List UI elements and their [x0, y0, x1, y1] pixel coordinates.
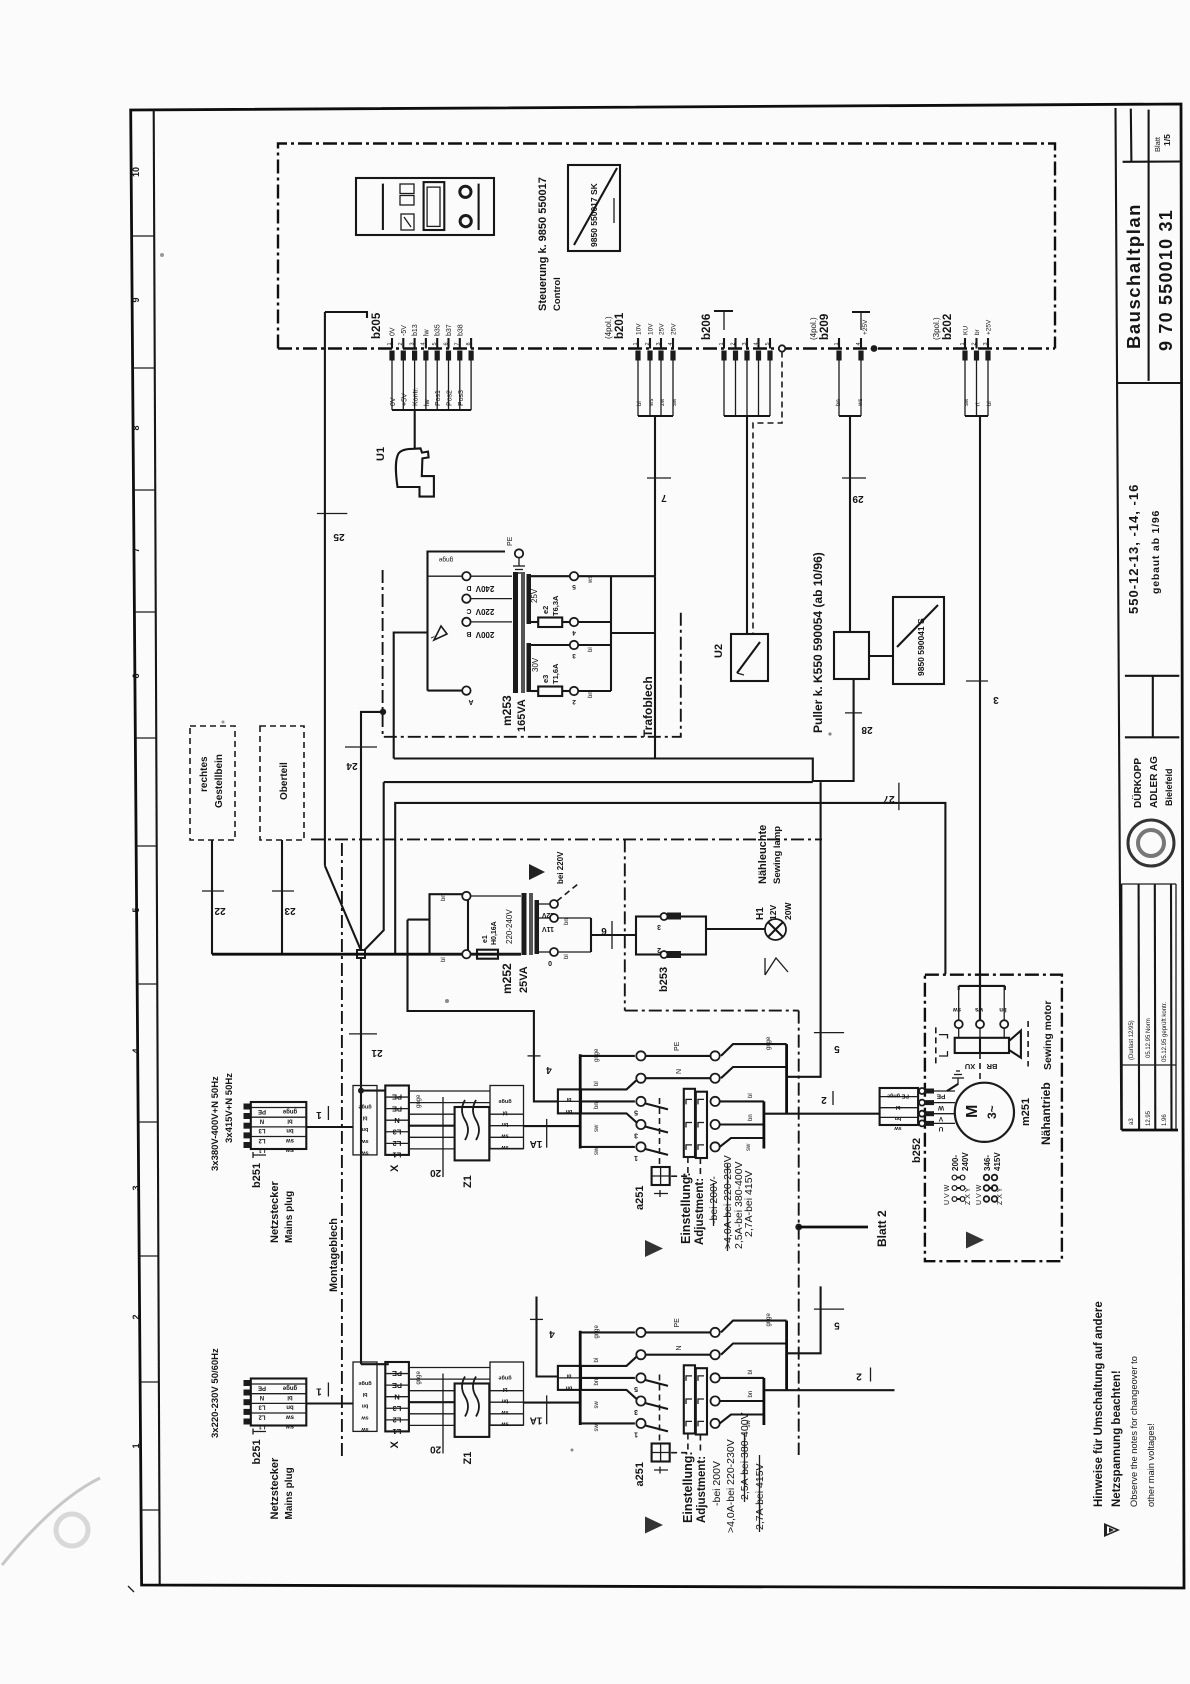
pin 2 wire to bundle: [976, 361, 978, 417]
border frame outer: [131, 104, 1184, 1588]
wire 21 tick: [349, 1033, 377, 1035]
overload linkage dashed lower: [670, 1434, 688, 1453]
b252 plug pins: [919, 1088, 925, 1094]
svg-text:b251: b251: [251, 1439, 263, 1464]
svg-text:b201: b201: [614, 312, 626, 339]
light barrier U2 box: [731, 634, 768, 681]
pin 3 vertical: [414, 338, 416, 349]
svg-text:gnge: gnge: [282, 1108, 297, 1114]
svg-text:L3: L3: [258, 1127, 266, 1133]
svg-text:Einstellung:: Einstellung:: [681, 1451, 695, 1523]
pin 3 vertical: [987, 338, 989, 349]
svg-text:b205: b205: [371, 312, 383, 339]
pin 5 wire to bundle: [436, 361, 438, 411]
dashed wire from bus to U2: [779, 345, 785, 351]
svg-text:3: 3: [983, 342, 989, 345]
pin 3 vertical: [660, 338, 662, 349]
m253 warning triangle: [434, 626, 447, 640]
mains plug b251 box lower: [251, 1379, 306, 1426]
brake feed wires: [958, 986, 960, 1020]
svg-text:PE: PE: [674, 1041, 681, 1051]
svg-text:L3: L3: [393, 1404, 402, 1413]
pin 3 wire to bundle: [414, 361, 416, 411]
svg-text:Netzspannung beachten!: Netzspannung beachten!: [1111, 1370, 1123, 1507]
filter output rows upper: [489, 1113, 523, 1115]
pin 3 connector symbol: [658, 351, 663, 361]
wire 1 tick lower: [327, 1383, 329, 1397]
pin 3 connector symbol: [744, 351, 749, 361]
svg-text:bn: bn: [501, 1398, 508, 1404]
pin 1 connector symbol: [721, 351, 726, 361]
svg-text:m253: m253: [500, 695, 514, 726]
pin 1 wire to bundle: [964, 361, 966, 417]
switch output rows lower: [721, 1321, 787, 1333]
company cell top line: [1125, 675, 1179, 677]
pin 1 connector symbol: [836, 351, 841, 361]
pin 4 wire to bundle: [425, 361, 427, 411]
svg-text:D: D: [466, 584, 471, 591]
contact row PE straight lower: [646, 1331, 711, 1333]
svg-text:PE: PE: [674, 1318, 681, 1328]
svg-text:240V: 240V: [475, 584, 494, 593]
svg-text:5: 5: [432, 342, 438, 345]
svg-text:240V: 240V: [961, 1152, 970, 1171]
svg-text:b206: b206: [701, 314, 713, 340]
m252 secondary terminal 11V: [539, 917, 550, 919]
title block Blatt cell divider: [1130, 109, 1133, 162]
pin 8 vertical: [470, 338, 472, 349]
svg-text:b35: b35: [435, 324, 442, 336]
wire 28 tick: [845, 712, 862, 714]
overload relay block left upper: [684, 1089, 695, 1157]
svg-text:0V: 0V: [390, 327, 397, 336]
puller relay box: [834, 632, 869, 679]
svg-text:2: 2: [821, 1094, 827, 1105]
svg-text:L3: L3: [258, 1404, 266, 1410]
enclosure dash-dot left vertical: [624, 839, 626, 1010]
svg-text:7: 7: [661, 492, 667, 503]
wire 6 from m252 to b253: [591, 934, 636, 936]
title table verticals: [1120, 884, 1123, 1130]
svg-text:bl: bl: [287, 1118, 293, 1124]
svg-text:346-: 346-: [983, 1155, 992, 1171]
svg-text:e3: e3: [541, 675, 550, 683]
adjuster a251 box lower: [652, 1444, 670, 1462]
transformer m252 primary box: [430, 894, 469, 954]
pin 2 vertical: [402, 338, 404, 349]
svg-text:7: 7: [131, 547, 141, 552]
border frame inner left scale line: [154, 110, 160, 1585]
svg-text:5: 5: [634, 1385, 638, 1392]
svg-text:W: W: [937, 1104, 944, 1111]
Trafoblech shield dash-dot box: [383, 570, 681, 737]
company logo: [1128, 820, 1174, 866]
svg-text:165VA: 165VA: [516, 699, 528, 732]
svg-text:PE: PE: [392, 1369, 402, 1378]
wire 24 from shield to node: [361, 712, 383, 865]
wire 1A tick lower: [546, 1395, 548, 1424]
svg-text:2: 2: [131, 1314, 141, 1319]
wire 4 upper tick: [528, 1055, 541, 1057]
svg-text:L2: L2: [393, 1139, 402, 1148]
svg-text:b37: b37: [446, 324, 453, 336]
svg-text:5: 5: [834, 1043, 840, 1054]
program box inner mark: [613, 198, 615, 223]
svg-text:bn: bn: [836, 399, 842, 406]
svg-text:bn: bn: [594, 1379, 600, 1386]
svg-text:9850 590041 S: 9850 590041 S: [916, 618, 926, 676]
pin 1 wire to bundle: [838, 361, 840, 417]
pin 2 vertical: [975, 338, 977, 349]
svg-text:Einstellung:: Einstellung:: [679, 1172, 693, 1244]
pin 2 connector symbol: [401, 351, 406, 361]
long wire m253 to puller supply: [394, 680, 854, 782]
fuse e3 T1.6A: [531, 690, 538, 692]
main switch left contacts lower: [636, 1328, 645, 1337]
pin 8 wire to bundle: [470, 361, 472, 411]
wires X to filter lower: [409, 1367, 490, 1369]
overload relay block right upper: [696, 1092, 707, 1158]
m253 primary terminal C 220V: [462, 594, 470, 602]
company cell divider: [1152, 676, 1154, 738]
title block left boundary: [1116, 108, 1122, 1130]
pin 1 wire to bundle: [723, 361, 725, 417]
title block line under Blatt cell: [1123, 160, 1181, 162]
wire from b206 to light barrier U2: [746, 416, 748, 634]
svg-text:Mains plug: Mains plug: [284, 1191, 295, 1243]
svg-text:sw: sw: [501, 1421, 509, 1427]
svg-text:PE: PE: [258, 1108, 266, 1114]
bei 220V dashed tap: [557, 884, 578, 901]
svg-text:Sewing motor: Sewing motor: [1042, 1001, 1054, 1070]
svg-text:4: 4: [753, 342, 759, 345]
svg-text:B: B: [466, 630, 471, 637]
svg-text:2: 2: [730, 342, 736, 345]
svg-text:-5V: -5V: [401, 325, 408, 336]
overload elements upper: [686, 1099, 692, 1104]
svg-text:4: 4: [546, 1064, 552, 1075]
svg-text:bn: bn: [361, 1126, 368, 1132]
machine top enclosure dash-dot top edge: [311, 838, 822, 840]
motor earth symbol: [947, 1084, 958, 1091]
cable 2 wire lower: [764, 1389, 895, 1391]
speed control unit U1 pedal shape: [396, 448, 434, 496]
pin 1 wire to bundle: [637, 361, 639, 417]
b251 earth mark lower: [253, 1429, 266, 1435]
bei 220V pointer triangle: [529, 864, 545, 880]
svg-text:4: 4: [572, 629, 576, 636]
svg-text:KU: KU: [963, 326, 970, 335]
svg-text:rechtes: rechtes: [199, 756, 210, 792]
warning triangle lower: [645, 1517, 663, 1534]
box rechtes Gestellbein dashed: [190, 726, 235, 840]
svg-text:M: M: [964, 1105, 981, 1118]
svg-text:Puller k. K550 590054 (ab: Puller k. K550 590054 (ab 10/96): [811, 552, 825, 733]
svg-text:28: 28: [861, 724, 873, 735]
m253 primary terminal D 240V: [462, 572, 470, 580]
svg-text:550-12-13, -14, -16: 550-12-13, -14, -16: [1126, 484, 1141, 614]
svg-text:bn: bn: [361, 1403, 368, 1409]
fuse e2 T6.3A: [531, 621, 538, 623]
box Oberteil dashed: [260, 726, 304, 840]
svg-text:b251: b251: [251, 1163, 263, 1188]
svg-text:gnge: gnge: [498, 1375, 511, 1381]
pin 3 vertical: [746, 338, 748, 349]
svg-text:sw: sw: [361, 1414, 369, 1420]
cable label box right lower: [490, 1362, 524, 1425]
pin 4 wire to bundle: [860, 361, 862, 417]
svg-text:Oberteil: Oberteil: [279, 762, 290, 800]
program box diagonal: [574, 168, 617, 245]
svg-text:-bei 200V: -bei 200V: [711, 1461, 723, 1506]
filter output rows lower: [489, 1390, 523, 1392]
b251 pin square row5 lower: [244, 1419, 251, 1425]
svg-text:X: X: [389, 1164, 401, 1172]
svg-text:sw: sw: [594, 1124, 600, 1132]
svg-text:L1: L1: [258, 1423, 266, 1429]
svg-text:sw: sw: [746, 1143, 752, 1151]
svg-text:2: 2: [971, 342, 977, 345]
wire 21 branch to terminal X lower: [361, 1363, 389, 1365]
svg-text:20: 20: [430, 1444, 442, 1455]
cable 5 stub lower: [787, 1286, 821, 1353]
node trunk horizontal: [212, 953, 521, 956]
sewing motor enclosure dash-dot box: [925, 975, 1062, 1261]
svg-text:X: X: [389, 1441, 401, 1449]
collector vertical phases upper: [763, 1101, 766, 1148]
control unit enclosure dash-dot box: [278, 144, 1055, 349]
wire stub to Blatt 2: [799, 1226, 868, 1229]
svg-text:PE: PE: [392, 1104, 402, 1113]
mounting plate dash-dot line Montageblech: [341, 843, 343, 1458]
pin 2 vertical: [649, 338, 651, 349]
svg-text:rt: rt: [976, 402, 982, 406]
svg-text:H0,16A: H0,16A: [491, 921, 498, 945]
pin 1 connector symbol: [389, 351, 394, 361]
svg-text:b252: b252: [911, 1138, 923, 1163]
wire 1 plug to terminal upper: [306, 1126, 353, 1128]
svg-text:sw: sw: [594, 1424, 600, 1432]
switch linkage dashed upper: [659, 1098, 661, 1167]
b251 pin square row3 lower: [244, 1399, 251, 1405]
svg-text:V: V: [938, 1115, 943, 1122]
svg-text:bl: bl: [748, 1093, 754, 1098]
svg-text:bl: bl: [362, 1115, 367, 1121]
switch linkage dashed lower: [659, 1375, 661, 1444]
svg-text:22: 22: [214, 905, 226, 916]
svg-text:+25V: +25V: [862, 319, 869, 335]
svg-text:ws: ws: [974, 1006, 984, 1012]
svg-text:bl: bl: [637, 401, 643, 406]
svg-text:L1: L1: [393, 1151, 402, 1160]
enclosure dash-dot vertical to Blatt2: [798, 1011, 800, 1455]
svg-text:6: 6: [601, 925, 607, 936]
svg-text:br: br: [974, 328, 981, 335]
pin 5 connector symbol: [435, 351, 440, 361]
svg-text:H1: H1: [755, 907, 766, 920]
svg-text:Bauschaltplan: Bauschaltplan: [1123, 203, 1144, 349]
collector vertical phases lower: [763, 1378, 766, 1425]
long wire node to puller ground: [384, 781, 813, 783]
svg-text:30V: 30V: [531, 657, 540, 672]
svg-text:10V: 10V: [648, 323, 655, 335]
svg-text:bn: bn: [564, 918, 570, 925]
cable 5 stub upper: [787, 782, 821, 1077]
svg-text:Blatt: Blatt: [1153, 136, 1162, 152]
svg-text:1/5: 1/5: [1162, 134, 1172, 146]
svg-text:Trafoblech: Trafoblech: [641, 676, 655, 737]
svg-text:1: 1: [633, 342, 639, 345]
pin 1 vertical: [838, 338, 840, 349]
m253 primary terminal B 200V: [462, 618, 470, 626]
svg-text:PE: PE: [507, 536, 514, 546]
junction dot wire24 to shield: [380, 709, 386, 715]
wire 7 tick: [647, 477, 671, 479]
wire 6 tick: [611, 921, 613, 949]
warning triangle at note: [1104, 1523, 1120, 1537]
contact row N straight upper: [646, 1077, 711, 1079]
pin 2 connector symbol: [647, 351, 652, 361]
svg-text:1.96: 1.96: [1162, 1114, 1168, 1126]
svg-text:PE: PE: [392, 1093, 402, 1102]
svg-text:gnge: gnge: [358, 1104, 371, 1110]
svg-text:(Durlast 12/95): (Durlast 12/95): [1129, 1020, 1135, 1060]
wire 27 from node to motor: [395, 803, 945, 974]
svg-text:4: 4: [668, 342, 674, 345]
m252 secondary terminal 0: [539, 951, 550, 953]
connector b253 box: [636, 917, 706, 955]
adjuster a251 box upper: [652, 1167, 670, 1185]
svg-text:Pos1: Pos1: [435, 390, 442, 406]
switch feed vertical lower: [579, 1331, 582, 1425]
m253 primary terminal A: [462, 686, 470, 694]
title table inner row line: [1121, 1064, 1176, 1066]
svg-text:2: 2: [645, 342, 651, 345]
wire 21 branch to terminal X upper: [361, 1090, 385, 1092]
svg-text:3x415V+N 50Hz: 3x415V+N 50Hz: [224, 1073, 235, 1143]
svg-text:415V: 415V: [993, 1152, 1002, 1171]
svg-text:(4pol.): (4pol.): [604, 316, 613, 339]
pin 1 vertical: [391, 338, 393, 349]
svg-text:N: N: [260, 1394, 264, 1400]
title block cell bottom line: [1118, 382, 1181, 384]
svg-text:bl: bl: [987, 401, 993, 406]
svg-text:Gestellbein: Gestellbein: [214, 754, 225, 808]
svg-text:ws: ws: [649, 399, 655, 407]
switch output rows upper: [721, 1044, 787, 1056]
svg-text:gnge: gnge: [358, 1380, 371, 1386]
main switch right contacts lower: [711, 1328, 720, 1337]
svg-text:2: 2: [572, 698, 576, 705]
lamp H1 symbol: [765, 919, 786, 940]
wire 20 tick upper: [442, 1097, 444, 1177]
svg-text:bl: bl: [594, 1358, 600, 1363]
svg-text:5: 5: [834, 1320, 840, 1331]
svg-text:Hinweise für Umschaltung auf a: Hinweise für Umschaltung auf andere: [1093, 1301, 1105, 1507]
m252 primary terminal top: [462, 892, 470, 900]
cable 5 tick upper: [814, 1032, 844, 1034]
svg-text:bn: bn: [441, 894, 447, 901]
wire 23 from Oberteil to node: [281, 840, 283, 954]
scan speck top area: [160, 253, 164, 257]
title block middle divider: [1148, 110, 1150, 381]
terminal block X lower: [385, 1362, 409, 1431]
pin 1 vertical: [964, 338, 966, 349]
wire 29 tick: [842, 477, 866, 479]
svg-text:4: 4: [131, 1048, 141, 1053]
overload relay block left lower: [684, 1365, 695, 1433]
bundle bracket: [638, 415, 673, 417]
svg-text:sw: sw: [286, 1413, 294, 1419]
svg-text:2: 2: [657, 946, 661, 953]
cable label box lower: [353, 1362, 377, 1431]
overload linkage dashed upper: [670, 1157, 688, 1176]
svg-text:21: 21: [371, 1047, 383, 1058]
svg-text:bl: bl: [594, 1081, 600, 1086]
svg-text:sw: sw: [286, 1423, 294, 1429]
bundle wire to switch lower: [524, 1402, 581, 1404]
wire 1 plug to terminal lower: [306, 1402, 353, 1404]
wire 4 lower vertical: [537, 1297, 558, 1377]
svg-text:ws: ws: [858, 399, 864, 407]
collector vertical PE N upper: [785, 1044, 788, 1114]
svg-text:Blatt 2: Blatt 2: [875, 1210, 889, 1247]
svg-text:3~: 3~: [985, 1105, 999, 1119]
svg-text:ws: ws: [588, 576, 594, 584]
svg-text:gnge: gnge: [416, 1370, 422, 1384]
wire 29 from b209 to puller relay: [849, 416, 851, 632]
wire 1 tick upper: [327, 1106, 329, 1120]
pin 2 wire to bundle: [402, 361, 404, 411]
svg-text:1A: 1A: [530, 1415, 543, 1426]
corner speck bottom-left: [128, 1586, 134, 1592]
b251 earth mark upper: [253, 1152, 266, 1158]
svg-text:Kontr.: Kontr.: [413, 388, 420, 406]
svg-text:23: 23: [284, 905, 296, 916]
main switch right contacts upper: [711, 1051, 720, 1060]
svg-text:200V: 200V: [475, 630, 494, 639]
pin 4 connector symbol: [670, 351, 675, 361]
m253 secondary 30V top wire to terminal 3: [531, 644, 570, 646]
svg-text:sw: sw: [672, 398, 678, 406]
svg-text:sw: sw: [594, 1401, 600, 1409]
svg-text:gnge: gnge: [282, 1385, 297, 1391]
svg-text:25VA: 25VA: [518, 966, 530, 993]
svg-text:11V: 11V: [542, 925, 554, 932]
scan artifact bottom-left arc: [2, 1478, 100, 1565]
svg-text:bn: bn: [501, 1121, 508, 1127]
b251 pin square row1 upper: [244, 1104, 251, 1110]
svg-text:sw: sw: [894, 1125, 902, 1131]
svg-text:gnge: gnge: [416, 1094, 422, 1108]
svg-text:PE: PE: [936, 1093, 945, 1100]
company cell mid line: [1125, 736, 1179, 738]
wire 22 from Gestellbein to node: [211, 840, 213, 954]
svg-text:220V: 220V: [475, 607, 494, 616]
svg-text:other main voltages!: other main voltages!: [1146, 1423, 1156, 1507]
wire 4 lower tick: [530, 1318, 543, 1320]
pin 4 vertical: [757, 338, 759, 349]
b209 pin4 termination bar: [852, 311, 870, 313]
control panel icon square 1: [400, 184, 414, 194]
group1 circles: [952, 1197, 957, 1202]
svg-text:3: 3: [657, 923, 661, 930]
svg-text:1: 1: [387, 342, 393, 345]
svg-text:Observe the notes for changeov: Observe the notes for changeover to: [1129, 1356, 1139, 1507]
svg-text:bn: bn: [748, 1114, 754, 1121]
pin 5 vertical: [769, 338, 771, 349]
program box 9850 550017 SK: [568, 165, 620, 251]
